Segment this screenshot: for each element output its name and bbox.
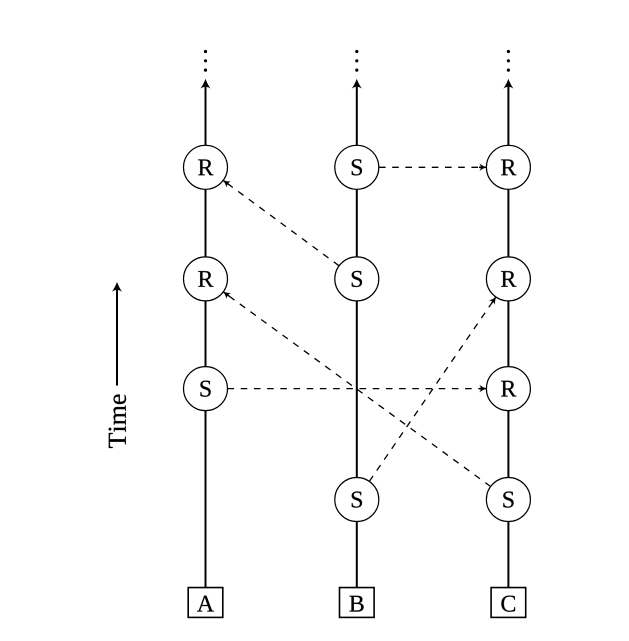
process line A top arrowhead — [200, 79, 210, 89]
process line C (vertical wire) — [507, 87, 509, 587]
message arrow C.S4 to A.R2 (dashed) — [221, 289, 491, 487]
message arrow B.S1 to C.R1 (dashed) — [379, 164, 486, 172]
event C.R2 (receive) — [486, 257, 530, 301]
time axis label — [109, 394, 126, 447]
event A.S3 (send) — [184, 367, 228, 411]
process line C top arrowhead — [503, 79, 513, 89]
event B.S3 (send) — [335, 478, 379, 522]
process line A (vertical wire) — [205, 87, 207, 587]
process box C — [491, 588, 526, 618]
event A.R1 (receive) — [184, 145, 228, 189]
process box A — [188, 588, 223, 618]
event C.S4 (send) — [486, 478, 530, 522]
message arrow A.S3 to C.R3 (dashed) — [228, 385, 487, 393]
event B.S1 (send) — [335, 145, 379, 189]
event A.R2 (receive) — [184, 257, 228, 301]
message arrow B.S3 to C.R2 (dashed) — [369, 295, 499, 482]
event B.S2 (send) — [335, 257, 379, 301]
process line B continuation dots — [355, 50, 358, 72]
event C.R1 (receive) — [486, 145, 530, 189]
event C.R3 (receive) — [486, 367, 530, 411]
process box B — [340, 588, 375, 618]
process line B (vertical wire) — [356, 87, 358, 587]
process line C continuation dots — [507, 50, 510, 72]
process line A continuation dots — [204, 50, 207, 72]
time axis arrow — [112, 282, 122, 386]
process line B top arrowhead — [352, 79, 362, 89]
message arrow B.S2 to A.R1 (dashed) — [221, 177, 339, 265]
